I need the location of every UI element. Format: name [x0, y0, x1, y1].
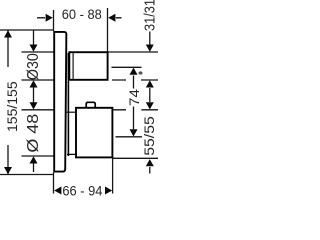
extension line knob1 top y=52 left	[22, 51, 54, 53]
dimension 60-88 arrows at y=17.8	[37, 14, 122, 22]
escutcheon plate cross-section	[54, 32, 66, 172]
safety tab on handle 2	[86, 102, 95, 109]
sleeve line behind handles x=68.4	[67, 53, 69, 156]
dimension arrows column x=33.5 (outside arrows for Ø30 / Ø48)	[30, 30, 38, 172]
extension line knob2 bottom y=158.8 right	[113, 157, 158, 159]
svg-text:155/155: 155/155	[4, 81, 20, 132]
extension line knob2 bottom y=156 left	[22, 155, 54, 157]
ink speck near axis line end	[139, 71, 143, 74]
svg-text:55/55: 55/55	[142, 116, 158, 156]
wall extension line bottom x=53.5	[53, 173, 55, 194]
extension line knob1 face x=107.5	[107, 8, 109, 52]
extension line bottom (plate bottom, y=174.5)	[0, 174, 54, 176]
extension line knob1 axis y=67.3	[112, 66, 142, 68]
svg-text:Ø30: Ø30	[26, 53, 43, 80]
handle knob 2 (Ø48)	[76, 108, 112, 158]
dimension 31/31 + 55/55 column x=149.8	[146, 32, 154, 174]
extension line knob1 bottom y=80 left	[22, 79, 54, 81]
svg-text:60 - 88: 60 - 88	[62, 6, 102, 22]
extension line knob1 bottom y=80 right segments	[112, 79, 158, 81]
extension line knob1 top y=52 right	[108, 51, 159, 53]
handle knob 1 (Ø30)	[69, 52, 107, 80]
knob 1 inner line x=73.1	[72, 53, 74, 80]
extension line knob2 top y=109.8 left	[22, 109, 54, 111]
dimension 66-94 arrows at y=190.5	[54, 187, 112, 195]
svg-text:Ø 48: Ø 48	[24, 114, 42, 153]
extension line knob2 axis y=136.8	[116, 136, 143, 138]
extension line knob2 face x=112.6	[112, 159, 114, 194]
extension line knob2 top y=109.8 right segments	[113, 109, 159, 111]
wall extension line top x=53.5	[53, 10, 55, 31]
svg-text:31/31: 31/31	[141, 0, 158, 31]
svg-text:66 - 94: 66 - 94	[62, 183, 103, 199]
neck lines of lower handle	[66, 112, 76, 154]
svg-text:74: 74	[127, 89, 142, 106]
dimension 155/155 line x=8	[4, 30, 12, 175]
extension line top (plate top, y=30)	[0, 29, 54, 31]
dimension 74 column x=133.5	[130, 68, 138, 137]
